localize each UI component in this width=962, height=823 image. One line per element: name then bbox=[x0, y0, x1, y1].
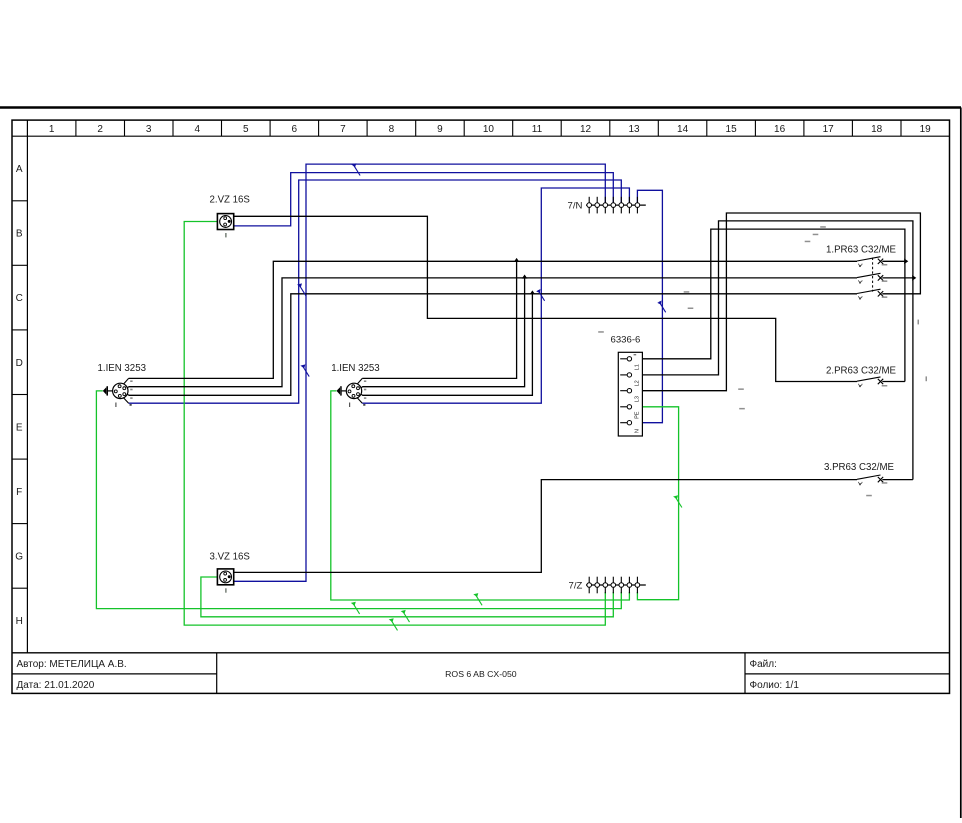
svg-text:1.PR63 C32/ME: 1.PR63 C32/ME bbox=[826, 245, 897, 256]
wire number dash vertical bbox=[918, 320, 920, 325]
column grid line 10 bbox=[512, 120, 514, 136]
row grid line 6 bbox=[12, 523, 27, 525]
drawing frame outer border bbox=[12, 120, 950, 693]
svg-text:1.IEN 3253: 1.IEN 3253 bbox=[98, 363, 146, 374]
terminal block 6336-6 body bbox=[618, 352, 642, 436]
wire connector 1.IEN(1) L3 to breaker 1.PR63 pole3 bbox=[129, 294, 857, 396]
svg-text:B: B bbox=[16, 229, 23, 240]
wire tick blue vertical x298 bbox=[299, 285, 306, 296]
svg-text:3.VZ 16S: 3.VZ 16S bbox=[210, 552, 251, 563]
wire tick green PE vertical bbox=[675, 497, 682, 508]
junction bbox=[904, 259, 908, 265]
breaker input hook mark bbox=[859, 296, 863, 298]
terminal 6336-6 pin L2 bbox=[620, 374, 627, 376]
wire number dash bbox=[882, 385, 888, 387]
svg-text:A: A bbox=[16, 164, 23, 175]
terminal 6336-6 pin L3 bbox=[620, 390, 627, 392]
svg-text:D: D bbox=[16, 358, 23, 369]
svg-text:12: 12 bbox=[580, 124, 592, 135]
wire green connector 1.IEN(2) to terminal 7/Z:6 bbox=[331, 391, 630, 600]
wire tick blue vertical x541 bbox=[538, 290, 545, 301]
row grid line 3 bbox=[12, 329, 27, 331]
svg-text:9: 9 bbox=[437, 124, 443, 135]
breaker input hook mark bbox=[859, 264, 863, 266]
svg-text:Автор: МЕТЕЛИЦА А.В.: Автор: МЕТЕЛИЦА А.В. bbox=[17, 659, 127, 670]
wire number dash vertical bbox=[926, 376, 928, 381]
wire blue connector 1.IEN(1) to terminal 7/N:5 bbox=[129, 180, 622, 403]
wire tick green c4 line bbox=[403, 612, 410, 623]
svg-text:E: E bbox=[16, 422, 23, 433]
svg-text:2.PR63 C32/ME: 2.PR63 C32/ME bbox=[826, 366, 897, 377]
breaker 3.PR63 C32/ME bbox=[857, 475, 881, 479]
svg-text:18: 18 bbox=[871, 124, 883, 135]
svg-text:13: 13 bbox=[628, 124, 640, 135]
svg-text:2.VZ 16S: 2.VZ 16S bbox=[210, 195, 251, 206]
row grid line 2 bbox=[12, 264, 27, 266]
column grid line 18 bbox=[900, 120, 902, 136]
breaker U1 1.PR63 C32/ME pole2 bbox=[857, 273, 881, 277]
wire number dash bbox=[882, 482, 888, 484]
wire blue socket 3.VZ to terminal 7/N:3 bbox=[234, 164, 606, 581]
title block divider left bbox=[216, 653, 218, 694]
wire number dash bbox=[882, 264, 888, 266]
wire breaker 1.PR63 pole2 output loop to block 6336-6 L2 bbox=[882, 277, 913, 279]
breaker input hook mark bbox=[859, 280, 863, 282]
svg-text:6336-6: 6336-6 bbox=[611, 335, 641, 346]
svg-text:8: 8 bbox=[389, 124, 395, 135]
wire connector 1.IEN(1) L2 to breaker 1.PR63 pole2 bbox=[129, 278, 857, 387]
socket 3.VZ 16S bbox=[217, 569, 233, 585]
column grid line 15 bbox=[754, 120, 756, 136]
svg-text:G: G bbox=[15, 552, 23, 563]
wire tick green c6 line bbox=[476, 595, 483, 606]
column grid line 11 bbox=[560, 120, 562, 136]
wire tick green c5 line bbox=[353, 603, 360, 614]
junction bbox=[530, 290, 536, 294]
junction bbox=[912, 275, 916, 281]
wire socket 3.VZ phase to breaker 3.PR63 input bbox=[234, 480, 857, 573]
socket 2.VZ 16S bbox=[217, 214, 233, 230]
column grid line 9 bbox=[463, 120, 465, 136]
svg-text:5: 5 bbox=[243, 124, 249, 135]
wire number dash bbox=[598, 331, 604, 333]
column grid line 16 bbox=[803, 120, 805, 136]
wire breaker 3.PR63 output to pole2 junction bbox=[882, 479, 913, 481]
wire number dash bbox=[820, 226, 826, 228]
wire connector 1.IEN(2) L2 branch bbox=[362, 278, 524, 387]
svg-text:7/Z: 7/Z bbox=[569, 581, 583, 592]
breaker input hook mark bbox=[859, 482, 863, 484]
column grid line 5 bbox=[269, 120, 271, 136]
wire breaker 1.PR63 pole1 output loop to block 6336-6 L1 bbox=[882, 260, 905, 262]
connector 1.IEN 3253 (middle) bbox=[346, 383, 361, 398]
column grid line 4 bbox=[221, 120, 223, 136]
wire green block 6336-6 PE to terminal 7/Z:7 bbox=[637, 407, 678, 600]
column grid line 3 bbox=[172, 120, 174, 136]
breaker U1 mechanical link dashed bbox=[872, 258, 874, 292]
title block mid line left cell bbox=[12, 673, 217, 675]
wire number dash bbox=[813, 234, 819, 236]
wire tick green c3 line bbox=[391, 620, 398, 631]
breaker U1 1.PR63 C32/ME pole3 bbox=[857, 289, 881, 293]
svg-text:17: 17 bbox=[823, 124, 835, 135]
row grid line 7 bbox=[12, 587, 27, 589]
wire green socket 2.VZ to terminal 7/Z:3 bbox=[184, 222, 605, 626]
frame letter column separator bbox=[26, 120, 28, 653]
wire breaker 1.PR63 pole3 output loop to block 6336-6 L3 bbox=[642, 213, 920, 391]
svg-text:4: 4 bbox=[195, 124, 201, 135]
wire number dash bbox=[866, 495, 872, 497]
svg-text:F: F bbox=[16, 487, 22, 498]
connector 1.IEN 3253 (left) bbox=[113, 383, 128, 398]
wire tick blue vertical x306 bbox=[303, 366, 310, 377]
column grid line 14 bbox=[706, 120, 708, 136]
wire connector 1.IEN(2) L3 branch bbox=[362, 294, 532, 396]
page border top edge bbox=[0, 106, 961, 108]
svg-text:11: 11 bbox=[532, 124, 543, 135]
wire number dash bbox=[805, 241, 811, 243]
junction bbox=[522, 275, 528, 279]
svg-text:7/N: 7/N bbox=[568, 201, 583, 212]
column grid line 8 bbox=[415, 120, 417, 136]
wire blue terminal 7/N:7 to block 6336-6 N bbox=[637, 190, 662, 422]
svg-text:N: N bbox=[635, 429, 641, 433]
wire green connector 1.IEN(1) to terminal 7/Z:5 bbox=[96, 391, 621, 609]
svg-text:ROS 6 AB CX-050: ROS 6 AB CX-050 bbox=[445, 669, 517, 679]
wire tick blue vertical x662 bbox=[659, 302, 666, 313]
svg-text:7: 7 bbox=[340, 124, 346, 135]
breaker 2.PR63 C32/ME bbox=[857, 377, 881, 381]
wire connector 1.IEN(1) L1 to breaker 1.PR63 pole1 bbox=[129, 261, 857, 378]
svg-text:L3: L3 bbox=[635, 396, 641, 402]
svg-text:L2: L2 bbox=[635, 380, 641, 386]
svg-text:C: C bbox=[16, 293, 23, 304]
svg-text:L1: L1 bbox=[635, 364, 641, 370]
svg-text:1: 1 bbox=[49, 124, 55, 135]
title block divider right bbox=[744, 653, 746, 694]
wire connector 1.IEN(2) L1 branch bbox=[362, 261, 516, 378]
title block mid line right cell bbox=[745, 673, 950, 675]
wire number dash bbox=[882, 296, 888, 298]
svg-text:10: 10 bbox=[483, 124, 495, 135]
svg-text:H: H bbox=[16, 616, 23, 627]
frame header row separator bbox=[12, 135, 950, 137]
svg-text:Файл:: Файл: bbox=[750, 659, 777, 670]
page border right edge bbox=[960, 108, 962, 819]
wire blue connector 1.IEN(2) to terminal 7/N:6 bbox=[362, 188, 629, 403]
wire number dash bbox=[739, 408, 745, 410]
svg-text:Фолио: 1/1: Фолио: 1/1 bbox=[750, 680, 800, 691]
wire green socket 3.VZ to terminal 7/Z:4 bbox=[201, 577, 613, 617]
junction bbox=[514, 258, 520, 262]
column grid line 1 bbox=[75, 120, 77, 136]
svg-text:15: 15 bbox=[726, 124, 738, 135]
terminal 6336-6 pin N bbox=[620, 422, 627, 424]
svg-text:PE: PE bbox=[635, 411, 641, 419]
wire number dash bbox=[882, 280, 888, 282]
row grid line 1 bbox=[12, 200, 27, 202]
svg-text:3: 3 bbox=[146, 124, 152, 135]
wire number dash bbox=[684, 291, 690, 293]
column grid line 2 bbox=[124, 120, 126, 136]
terminal 6336-6 pin L1 bbox=[620, 358, 627, 360]
wire number dash bbox=[688, 308, 694, 310]
column grid line 13 bbox=[657, 120, 659, 136]
column grid line 7 bbox=[366, 120, 368, 136]
terminal 6336-6 pin PE bbox=[620, 406, 627, 408]
svg-text:14: 14 bbox=[677, 124, 689, 135]
svg-text:6: 6 bbox=[292, 124, 298, 135]
frame bottom / title block top bbox=[12, 652, 950, 654]
row grid line 4 bbox=[12, 394, 27, 396]
wire blue socket 2.VZ to terminal 7/N:4 bbox=[234, 173, 614, 226]
wire tick blue top horizontals bbox=[354, 165, 361, 176]
wire socket 2.VZ phase to breaker 2.PR63 input bbox=[234, 216, 857, 381]
wire number dash bbox=[738, 388, 744, 390]
row grid line 5 bbox=[12, 458, 27, 460]
column grid line 6 bbox=[318, 120, 320, 136]
terminal block top mark bbox=[634, 354, 637, 355]
svg-text:Дата: 21.01.2020: Дата: 21.01.2020 bbox=[17, 680, 95, 691]
svg-text:1.IEN 3253: 1.IEN 3253 bbox=[331, 363, 379, 374]
svg-text:19: 19 bbox=[920, 124, 932, 135]
column grid line 17 bbox=[851, 120, 853, 136]
svg-text:2: 2 bbox=[97, 124, 103, 135]
svg-text:3.PR63 C32/ME: 3.PR63 C32/ME bbox=[824, 462, 895, 473]
column grid line 12 bbox=[609, 120, 611, 136]
svg-text:16: 16 bbox=[774, 124, 786, 135]
breaker input hook mark bbox=[859, 384, 863, 386]
wire breaker 2.PR63 output to pole1 junction bbox=[882, 381, 905, 383]
breaker U1 1.PR63 C32/ME pole1 bbox=[857, 257, 881, 261]
